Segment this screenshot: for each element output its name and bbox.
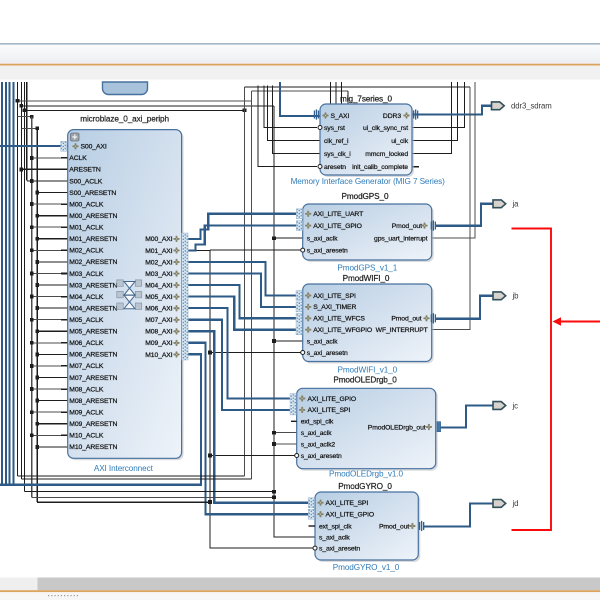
svg-text:M07_AXI: M07_AXI: [145, 317, 172, 324]
junction M03_ARESETN on trunk: [35, 283, 39, 287]
svg-text:M01_AXI: M01_AXI: [145, 248, 172, 255]
interconnect expand button: [71, 133, 80, 141]
svg-text:s_axi_aclk2: s_axi_aclk2: [301, 441, 336, 448]
wire: stub to interconnect pin M05_ARESETN: [37, 330, 67, 332]
wire: top horizontal net y109: [24, 109, 244, 111]
wire: stub to interconnect pin M08_ACLK: [32, 388, 61, 390]
junction M01_ARESETN on trunk: [35, 237, 39, 241]
wire: WF_INTERRUPT net across top rail: [245, 86, 471, 88]
junction M10_ARESETN on trunk: [35, 445, 39, 449]
svg-text:M05_AXI: M05_AXI: [145, 294, 172, 301]
svg-text:sys_clk_i: sys_clk_i: [324, 151, 351, 158]
junction ARESETN trunk top: [35, 126, 39, 130]
svg-text:S00_AXI: S00_AXI: [81, 144, 107, 151]
wire: left black vertical trunk 7: [23, 82, 25, 492]
svg-text:S00_ARESETN: S00_ARESETN: [69, 190, 116, 197]
port jc: [493, 402, 506, 410]
svg-text:PmodOLEDrgb_v1.0: PmodOLEDrgb_v1.0: [329, 470, 403, 479]
svg-text:M03_ARESETN: M03_ARESETN: [69, 282, 117, 289]
junction M02_ARESETN on trunk: [35, 260, 39, 264]
svg-text:s_axi_aresetn: s_axi_aresetn: [307, 247, 348, 254]
svg-text:Memory Interface Generator (MI: Memory Interface Generator (MIG 7 Series…: [291, 177, 446, 186]
wire: M09_AXI bus to PmodGYRO AXI_LITE_GPIO: [186, 343, 315, 514]
wire: M10_AXI bus wrap-around to left edge: [0, 354, 201, 484]
junction M04_ARESETN on trunk: [35, 306, 39, 310]
svg-text:AXI Interconnect: AXI Interconnect: [94, 464, 154, 473]
wire: left blue vertical trunk 1: [1, 82, 3, 485]
svg-text:s_axi_aresetn: s_axi_aresetn: [307, 350, 348, 357]
svg-text:M10_ARESETN: M10_ARESETN: [69, 444, 117, 451]
svg-text:M09_AXI: M09_AXI: [145, 340, 172, 347]
junction M03_ACLK on trunk: [30, 272, 34, 276]
interconnect right bus pin strip: [182, 233, 189, 360]
wire: mig ui_clk net up: [412, 82, 458, 141]
block: PmodGYRO_0: [317, 494, 420, 562]
svg-text:PmodGPS_v1_1: PmodGPS_v1_1: [337, 263, 397, 272]
svg-text:M01_ARESETN: M01_ARESETN: [69, 236, 117, 243]
GPS AXI_LITE_UART pin strip: [296, 209, 302, 219]
svg-text:M04_ACLK: M04_ACLK: [69, 294, 104, 301]
junction M08_ACLK on trunk: [30, 387, 34, 391]
wire: stub to interconnect pin M01_ARESETN: [37, 238, 67, 240]
wire: branch to PmodOLEDrgb s_axi_aclk2: [274, 443, 297, 445]
status dots: [48, 595, 49, 596]
wire: stub to interconnect pin M02_ARESETN: [37, 261, 67, 263]
junction M01_ACLK on trunk: [30, 225, 34, 229]
svg-text:microblaze_0_axi_periph: microblaze_0_axi_periph: [80, 114, 169, 123]
wire: short vertical into mig top 2: [335, 82, 337, 105]
wire: stub to interconnect pin M05_ACLK: [32, 319, 61, 321]
svg-text:jb: jb: [512, 292, 520, 301]
top toolbar band: [0, 45, 600, 64]
OLED AXI_LITE_GPIO pin strip: [290, 394, 296, 404]
wire: branch to PmodGPS s_axi_aresetn: [210, 249, 303, 251]
svg-text:init_calib_complete: init_calib_complete: [352, 164, 408, 171]
wire: M04_AXI bus to PmodWIFI AXI_LITE_WFCS: [186, 285, 303, 318]
junction M06_ACLK on trunk: [30, 341, 34, 345]
svg-text:M01_ACLK: M01_ACLK: [69, 225, 104, 232]
svg-text:ACLK: ACLK: [69, 155, 87, 162]
svg-text:S00_ACLK: S00_ACLK: [69, 178, 102, 185]
svg-text:S_AXI_TIMER: S_AXI_TIMER: [313, 304, 356, 311]
junction top rail y110: [22, 108, 26, 112]
wire: s_axi_aclk trunk x274 to PmodGYRO s_axi_aclk: [274, 106, 315, 537]
wire: M06_AXI bus to PmodOLEDrgb AXI_LITE_GPIO: [186, 308, 297, 398]
junction M10_ACLK on trunk: [30, 433, 34, 437]
wire: mig init_calib_complete stub: [412, 166, 419, 168]
wire: S00_AXI bus from left edge: [0, 145, 68, 147]
wire: stub to interconnect pin M04_ACLK: [32, 296, 61, 298]
WIFI S_AXI_TIMER pin strip: [296, 302, 302, 312]
wire: top horizontal net y106 (aclk feed): [21, 105, 274, 107]
wire: mig aresetn feed: [258, 86, 317, 167]
svg-text:M00_ARESETN: M00_ARESETN: [69, 213, 117, 220]
junction on aresetn trunk at WIFI: [208, 351, 212, 355]
wire: branch to PmodGPS s_axi_aclk: [274, 237, 303, 239]
svg-text:M08_ARESETN: M08_ARESETN: [69, 398, 117, 405]
wire: stub to interconnect pin M00_ACLK: [32, 203, 61, 205]
wire: stub to interconnect pin M08_ARESETN: [37, 400, 67, 402]
wire: M07_AXI bus to PmodOLEDrgb AXI_LITE_SPI: [186, 320, 297, 410]
junction on aclk trunk at OLED aclk2: [272, 442, 276, 446]
junction x244 y110: [243, 108, 247, 112]
svg-text:M05_ARESETN: M05_ARESETN: [69, 329, 117, 336]
PmodGYRO ext_spi_clk stub: [309, 525, 316, 527]
junction on aresetn trunk at OLED: [208, 454, 212, 458]
svg-text:M02_ACLK: M02_ACLK: [69, 248, 104, 255]
svg-text:ext_spi_clk: ext_spi_clk: [319, 523, 352, 530]
svg-text:M09_ARESETN: M09_ARESETN: [69, 421, 117, 428]
WIFI Pmod_out pin strip: [431, 314, 432, 322]
WIFI AXI_LITE_WFCS pin strip: [296, 313, 302, 323]
svg-text:s_axi_aclk: s_axi_aclk: [307, 236, 338, 243]
svg-text:M10_ACLK: M10_ACLK: [69, 433, 104, 440]
svg-text:M06_ACLK: M06_ACLK: [69, 340, 104, 347]
wire: stub to interconnect pin M06_ARESETN: [37, 353, 67, 355]
wire: mig sys_rst feed: [264, 86, 317, 128]
svg-text:AXI_LITE_GPIO: AXI_LITE_GPIO: [313, 223, 362, 230]
svg-text:M07_ACLK: M07_ACLK: [69, 363, 104, 370]
svg-text:sys_rst: sys_rst: [324, 125, 345, 132]
wire: bottom wrap net y475 to x244 trunk: [18, 475, 245, 477]
block: PmodGPS_0: [305, 206, 434, 262]
wire: ACLK trunk vertical: [31, 117, 33, 498]
wire: bottom wrap net y502: [37, 501, 210, 503]
svg-text:DDR3: DDR3: [383, 113, 401, 120]
wire: DDR3 bus to ddr3_sdram port: [412, 106, 492, 115]
partially visible block tab at top (microblaze): [103, 82, 148, 95]
junction ACLK on trunk: [30, 156, 34, 160]
wire: stub into ACLK trunk top: [18, 116, 32, 118]
mig left pins: [322, 112, 328, 118]
wire: mig clk_ref_i feed: [268, 86, 321, 141]
svg-text:ui_clk: ui_clk: [391, 138, 408, 145]
red annotation arrow: [556, 321, 600, 323]
junction top rail y106: [19, 104, 23, 108]
port ja: [493, 200, 506, 208]
wire: stub to interconnect pin M09_ACLK: [32, 411, 61, 413]
svg-text:s_axi_aclk: s_axi_aclk: [307, 338, 338, 345]
junction x274 y497: [272, 495, 276, 499]
svg-text:AXI_LITE_SPI: AXI_LITE_SPI: [308, 407, 351, 414]
port jd: [493, 500, 506, 508]
wire: top rail y91 to mig verticals: [251, 90, 348, 92]
junction M09_ACLK on trunk: [30, 410, 34, 414]
mig DDR3 pin strip: [413, 111, 414, 119]
svg-text:aresetn: aresetn: [324, 164, 346, 171]
wire: PmodOLEDrgb out to jc port: [441, 406, 493, 428]
wire: M02_AXI bus to PmodWIFI AXI_LITE_SPI: [186, 262, 303, 296]
svg-text:ja: ja: [512, 200, 520, 209]
wire: left black vertical trunk 5: [17, 82, 19, 476]
wire: mig ui_clk_sync_rst net up: [412, 82, 465, 128]
bottom scrollbar track: [0, 578, 600, 591]
wire: M03_AXI bus to PmodWIFI S_AXI_TIMER: [186, 274, 303, 307]
bottom orange rule: [0, 590, 600, 592]
junction top rail y100: [16, 99, 20, 103]
WIFI AXI_LITE_SPI pin strip: [296, 291, 302, 301]
wire: stub to interconnect pin M06_ACLK: [32, 342, 61, 344]
svg-text:AXI_LITE_GPIO: AXI_LITE_GPIO: [326, 512, 375, 519]
wire: left blue vertical trunk 3: [9, 82, 11, 485]
svg-text:M07_ARESETN: M07_ARESETN: [69, 375, 117, 382]
svg-text:s_axi_aclk: s_axi_aclk: [319, 534, 350, 541]
wire: short vertical to S00_ACLK: [26, 82, 28, 180]
svg-text:PmodWIFI_0: PmodWIFI_0: [343, 274, 390, 283]
svg-text:jc: jc: [512, 401, 519, 410]
svg-text:AXI_LITE_GPIO: AXI_LITE_GPIO: [308, 396, 357, 403]
svg-text:AXI_LITE_WFGPIO: AXI_LITE_WFGPIO: [313, 327, 372, 334]
wire: stub to interconnect pin M00_ARESETN: [37, 215, 67, 217]
svg-text:ui_clk_sync_rst: ui_clk_sync_rst: [363, 125, 408, 132]
junction M00_ARESETN on trunk: [35, 214, 39, 218]
bottom status strip: [0, 592, 600, 600]
port ddr3_sdram: [492, 102, 505, 110]
junction M08_ARESETN on trunk: [35, 399, 39, 403]
wire: PmodGYRO Pmod_out to jd port: [424, 503, 493, 526]
svg-text:mmcm_locked: mmcm_locked: [365, 151, 408, 158]
junction x274 y491: [272, 490, 276, 494]
GPS AXI_LITE_GPIO pin strip: [296, 221, 302, 231]
svg-text:M04_AXI: M04_AXI: [145, 282, 172, 289]
wire: mig mmcm_locked net: [412, 82, 452, 154]
wire: top horizontal net y100: [18, 100, 252, 102]
wire: left blue vertical trunk 2: [5, 82, 7, 485]
svg-text:PmodGPS_0: PmodGPS_0: [342, 192, 389, 201]
wire: branch to PmodWIFI s_axi_aclk: [274, 340, 303, 342]
PmodOLEDrgb ext_spi_clk stub: [291, 420, 297, 422]
junction M05_ACLK on trunk: [30, 318, 34, 322]
svg-text:s_axi_aclk: s_axi_aclk: [301, 430, 332, 437]
wire: mid gray vertical trunk x251: [250, 91, 252, 479]
GYRO AXI_LITE_SPI pin strip: [308, 498, 314, 508]
wire: mig sys_clk_i feed: [273, 86, 321, 154]
svg-text:M00_ACLK: M00_ACLK: [69, 201, 104, 208]
svg-text:M03_AXI: M03_AXI: [145, 271, 172, 278]
OLED out pin strip: [437, 422, 441, 432]
junction M09_ARESETN on trunk: [35, 422, 39, 426]
top chrome separator line: [0, 43, 600, 44]
svg-text:mig_7series_0: mig_7series_0: [340, 94, 392, 103]
junction M00_ACLK on trunk: [30, 202, 34, 206]
svg-text:PmodOLEDrgb_0: PmodOLEDrgb_0: [333, 375, 397, 384]
bottom scrollbar thumb: [38, 578, 600, 591]
junction ACLK trunk top: [30, 115, 34, 119]
svg-text:jd: jd: [512, 499, 519, 508]
junction S00_ARESETN on trunk: [35, 191, 39, 195]
wire: stub to interconnect pin S00_ARESETN: [37, 192, 67, 194]
wire: bottom wrap net y478 to x251 trunk: [21, 478, 251, 480]
svg-text:Pmod_out: Pmod_out: [391, 316, 421, 323]
svg-text:M03_ACLK: M03_ACLK: [69, 271, 104, 278]
light strip under orange rule: [0, 66, 600, 80]
block: PmodWIFI_0: [305, 286, 434, 364]
svg-text:s_axi_aresetn: s_axi_aresetn: [301, 453, 342, 460]
wire: stub to interconnect pin M09_ARESETN: [37, 423, 67, 425]
svg-text:M06_ARESETN: M06_ARESETN: [69, 352, 117, 359]
svg-text:ext_spi_clk: ext_spi_clk: [301, 419, 334, 426]
junction M07_ACLK on trunk: [30, 364, 34, 368]
wire: M00_AXI bus to PmodGPS AXI_LITE_UART: [186, 214, 303, 239]
wire: branch to PmodOLEDrgb s_axi_aresetn: [210, 455, 297, 457]
wire: mid gray vertical trunk x244: [244, 87, 246, 476]
wire: stub to interconnect pin ACLK: [32, 157, 61, 159]
wire: stub to interconnect pin M07_ACLK: [32, 365, 61, 367]
svg-text:M10_AXI: M10_AXI: [145, 352, 172, 359]
mig S_AXI pin strip: [314, 111, 315, 119]
pin strip S00_AXI: [61, 141, 67, 151]
junction on aclk trunk at WIFI: [272, 339, 276, 343]
wire: stub to interconnect pin M01_ACLK: [32, 226, 61, 228]
wire: short vertical into mig top 1: [330, 82, 332, 105]
block: microblaze_0_axi_periph (AXI Interconnect): [70, 132, 184, 461]
svg-text:PmodOLEDrgb_out: PmodOLEDrgb_out: [368, 424, 426, 431]
wire: stub to interconnect pin M02_ACLK: [32, 249, 61, 251]
svg-text:M09_ACLK: M09_ACLK: [69, 409, 104, 416]
svg-text:Pmod_out: Pmod_out: [379, 523, 409, 530]
junction M02_ACLK on trunk: [30, 248, 34, 252]
wire: stub to interconnect pin ARESETN: [21, 168, 67, 170]
wire: stub to interconnect pin M10_ARESETN: [37, 446, 67, 448]
svg-text:ddr3_sdram: ddr3_sdram: [511, 102, 552, 111]
junction M07_ARESETN on trunk: [35, 376, 39, 380]
wire: stub to interconnect pin M03_ARESETN: [37, 284, 67, 286]
svg-text:M05_ACLK: M05_ACLK: [69, 317, 104, 324]
junction M06_ARESETN on trunk: [35, 352, 39, 356]
svg-text:AXI_LITE_WFCS: AXI_LITE_WFCS: [313, 316, 365, 323]
wire: s_axi_aresetn trunk x210 to PmodGYRO s_axi_aresetn: [190, 250, 315, 548]
wire: WF_INTERRUPT net up to top rail: [432, 87, 471, 330]
wire: gps_uart_interrupt net up: [432, 82, 475, 238]
wire: stub to interconnect pin M03_ACLK: [32, 272, 61, 274]
wire: stub to interconnect pin M10_ACLK: [32, 434, 61, 436]
wire: left black vertical trunk 6: [20, 82, 22, 479]
block: mig_7series_0: [322, 106, 414, 177]
wire: stub into ARESETN trunk top: [21, 127, 37, 129]
wire: stub to interconnect pin M04_ARESETN: [37, 307, 67, 309]
junction on aclk trunk at OLED aclk: [272, 431, 276, 435]
junction ARESETN on trunk: [19, 168, 23, 172]
svg-text:M00_AXI: M00_AXI: [145, 236, 172, 243]
svg-text:PmodGYRO_v1_0: PmodGYRO_v1_0: [333, 563, 400, 572]
svg-text:ARESETN: ARESETN: [69, 167, 101, 174]
wire: ARESETN trunk vertical: [36, 128, 38, 502]
svg-text:M02_AXI: M02_AXI: [145, 259, 172, 266]
orange top rule: [0, 64, 600, 66]
block: PmodOLEDrgb_0: [299, 390, 438, 470]
WIFI AXI_LITE_WFGPIO pin strip: [296, 325, 302, 335]
svg-text:M02_ARESETN: M02_ARESETN: [69, 259, 117, 266]
wire: branch to PmodOLEDrgb s_axi_aclk: [274, 432, 297, 434]
svg-text:S_AXI: S_AXI: [331, 113, 350, 120]
svg-text:M08_ACLK: M08_ACLK: [69, 386, 104, 393]
wire: bottom wrap net y491: [24, 491, 274, 493]
svg-text:PmodWIFI_v1_0: PmodWIFI_v1_0: [337, 366, 397, 375]
wire: PmodWIFI Pmod_out to jb port: [436, 296, 493, 319]
junction M04_ACLK on trunk: [30, 295, 34, 299]
svg-text:AXI_LITE_SPI: AXI_LITE_SPI: [313, 293, 356, 300]
svg-text:AXI_LITE_UART: AXI_LITE_UART: [313, 211, 363, 218]
svg-text:clk_ref_i: clk_ref_i: [324, 138, 349, 145]
interconnect internal carry icons: [117, 280, 123, 286]
wire: short vertical into mig top 3: [341, 82, 343, 105]
svg-text:M04_ARESETN: M04_ARESETN: [69, 305, 117, 312]
junction M05_ARESETN on trunk: [35, 329, 39, 333]
wire: branch to PmodWIFI s_axi_aresetn: [210, 352, 303, 354]
svg-text:M08_AXI: M08_AXI: [145, 329, 172, 336]
junction aresetn trunk y502: [208, 500, 212, 504]
wire: stub to interconnect pin M07_ARESETN: [37, 377, 67, 379]
svg-text:WF_INTERRUPT: WF_INTERRUPT: [376, 327, 428, 334]
wire: M08_AXI bus to PmodGYRO AXI_LITE_SPI: [186, 331, 315, 503]
svg-text:Pmod_out: Pmod_out: [392, 223, 422, 230]
interconnect left pin labels: [72, 143, 78, 149]
red annotation bracket: [512, 229, 552, 531]
wire: mig S_AXI bus from top: [280, 82, 320, 116]
svg-text:s_axi_aresetn: s_axi_aresetn: [319, 545, 360, 552]
port jb: [493, 292, 506, 300]
junction on aclk trunk at GPS: [272, 236, 276, 240]
wire: bottom wrap net y497: [32, 496, 274, 498]
svg-text:AXI_LITE_SPI: AXI_LITE_SPI: [326, 500, 369, 507]
wire: M01_AXI bus to PmodGPS AXI_LITE_GPIO: [186, 226, 303, 251]
svg-text:gps_uart_interrupt: gps_uart_interrupt: [374, 236, 428, 243]
OLED AXI_LITE_SPI pin strip: [290, 405, 296, 415]
GYRO Pmod_out pin strip: [419, 522, 420, 530]
wire: stub to interconnect pin S00_ACLK: [27, 180, 68, 182]
GPS Pmod_out pin strip: [431, 222, 432, 230]
wire: left blue vertical trunk 4: [13, 82, 15, 485]
svg-text:PmodGYRO_0: PmodGYRO_0: [338, 482, 392, 491]
svg-text:M06_AXI: M06_AXI: [145, 306, 172, 313]
PmodGPS left pins: [305, 211, 311, 217]
wire: PmodGPS Pmod_out to ja port: [436, 204, 493, 226]
GYRO AXI_LITE_GPIO pin strip: [308, 509, 314, 519]
wire: short vertical into mig top 4: [347, 91, 349, 105]
wire: M05_AXI bus to PmodWIFI AXI_LITE_WFGPIO: [186, 297, 303, 330]
junction S00_ACLK on trunk: [30, 179, 34, 183]
